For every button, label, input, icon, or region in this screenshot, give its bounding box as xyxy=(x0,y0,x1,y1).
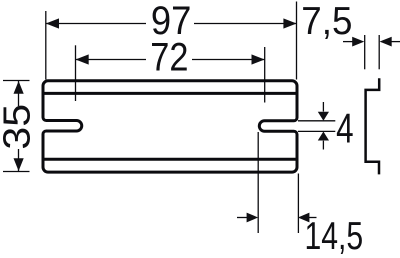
svg-text:4: 4 xyxy=(336,105,353,152)
svg-text:72: 72 xyxy=(150,36,188,80)
svg-text:35: 35 xyxy=(0,104,39,150)
svg-text:7,5: 7,5 xyxy=(301,0,352,43)
svg-text:14,5: 14,5 xyxy=(305,215,364,258)
